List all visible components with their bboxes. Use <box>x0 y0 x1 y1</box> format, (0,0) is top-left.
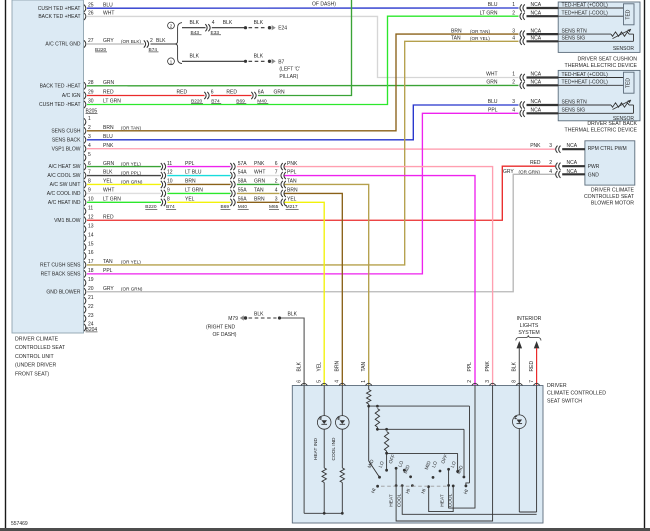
svg-text:(RIGHT END: (RIGHT END <box>206 324 235 330</box>
svg-text:HEAT IND: HEAT IND <box>313 437 319 459</box>
svg-text:3: 3 <box>88 134 91 140</box>
svg-text:A/C HEAT IND: A/C HEAT IND <box>48 200 81 206</box>
svg-text:RED: RED <box>530 160 541 166</box>
wire row pin7 M40 to M217 WHT <box>237 175 280 177</box>
ground branch 1 wire BLK <box>182 54 245 62</box>
svg-text:16: 16 <box>88 250 94 256</box>
ladder H2 <box>377 428 464 430</box>
svg-text:PPL: PPL <box>103 268 113 274</box>
svg-text:COOL: COOL <box>396 493 402 507</box>
svg-text:26: 26 <box>88 11 94 17</box>
connector ref B204 <box>86 327 98 333</box>
junction B74 row pin7 <box>161 170 202 179</box>
svg-text:7: 7 <box>529 380 535 383</box>
svg-text:BLOWER MOTOR: BLOWER MOTOR <box>591 201 634 207</box>
wire row pin9 M217 to seat switch BRN <box>284 193 342 385</box>
svg-text:(OR YEL): (OR YEL) <box>121 260 141 265</box>
svg-text:TED: TED <box>625 78 631 88</box>
driver climate controlled seat switch box S1 <box>292 386 543 524</box>
svg-text:RED: RED <box>103 214 114 220</box>
svg-text:(OR TAN): (OR TAN) <box>121 126 141 131</box>
svg-text:55A: 55A <box>238 188 248 194</box>
svg-text:TED-HEAT (+COOL): TED-HEAT (+COOL) <box>562 72 609 78</box>
svg-text:TAN: TAN <box>254 188 264 194</box>
svg-text:9: 9 <box>88 188 91 194</box>
ground B7 <box>268 59 300 80</box>
wire row pin10 B74 to M40 YEL <box>167 201 230 203</box>
svg-text:SENS CUSH: SENS CUSH <box>51 128 81 134</box>
wire row pin7 segment panel to B74 <box>87 175 161 177</box>
ladder resistor R5 <box>384 432 388 452</box>
driver climate controlled seat blower motor box M1 <box>585 141 635 185</box>
svg-text:(OR GRN): (OR GRN) <box>121 287 143 292</box>
svg-text:INTERIOR: INTERIOR <box>517 316 542 322</box>
ladder H3 <box>387 452 458 454</box>
svg-text:557469: 557469 <box>11 521 28 527</box>
svg-text:RET BACK SENS: RET BACK SENS <box>41 271 82 277</box>
svg-text:(OR YEL): (OR YEL) <box>121 161 141 166</box>
wire row pin10 M40 to M217 BRN <box>237 201 280 203</box>
S1 pin entries <box>296 361 540 386</box>
svg-text:BLK: BLK <box>254 54 264 60</box>
svg-text:6: 6 <box>296 380 302 383</box>
switch gang dashed link <box>381 485 448 487</box>
indicator common rail <box>304 512 342 514</box>
interior lights system caption <box>517 316 542 336</box>
driver seat back thermal electric device U2 box <box>558 70 640 122</box>
svg-text:PNK: PNK <box>254 161 265 167</box>
connector M217 row pin10 <box>275 197 297 206</box>
driver seat cushion thermal electric device U1 box <box>558 2 640 52</box>
heat indicator resistor R1 <box>322 468 326 483</box>
page border right <box>644 0 646 529</box>
svg-text:OF DASH): OF DASH) <box>213 332 237 338</box>
ground splice dot branch 1 <box>244 60 247 63</box>
svg-text:PILLAR): PILLAR) <box>279 74 298 80</box>
svg-text:27: 27 <box>88 38 94 44</box>
SW1 wiper <box>395 468 397 485</box>
svg-text:A/C COOL IND: A/C COOL IND <box>47 191 81 197</box>
U2 caption <box>565 121 638 134</box>
M1 pin 2 PWR <box>530 160 585 170</box>
connector M217 row pin9 <box>275 188 298 197</box>
driver seat cushion thermal electric device U1 connector pins <box>480 2 559 45</box>
svg-text:12: 12 <box>88 214 94 220</box>
svg-text:PNK: PNK <box>530 143 541 149</box>
svg-text:TAN: TAN <box>361 361 367 371</box>
U1 pin4 wire label TAN (OR YEL) <box>451 36 490 42</box>
svg-text:57A: 57A <box>238 161 248 167</box>
wire RED pin12 to M1 pin2 <box>87 166 555 220</box>
wire row pin9 B74 to M40 LT GRN <box>167 192 230 194</box>
svg-text:(LEFT 'C': (LEFT 'C' <box>279 67 300 73</box>
connector B205 pins 25-30 <box>38 2 142 108</box>
svg-text:YEL: YEL <box>287 197 297 203</box>
wire PNK pin4 to M1 pin3 <box>87 148 555 150</box>
svg-text:29: 29 <box>88 90 94 96</box>
svg-text:M79: M79 <box>228 316 238 322</box>
wire BLU pin3 to U2 pin3 <box>87 105 519 140</box>
svg-text:LT BLU: LT BLU <box>185 170 202 176</box>
heat indicator LED D1 <box>323 386 325 416</box>
circled 1 <box>168 58 175 65</box>
svg-text:21: 21 <box>88 295 94 301</box>
svg-text:3: 3 <box>512 28 515 34</box>
U1 caption <box>565 56 638 69</box>
svg-text:25: 25 <box>88 2 94 8</box>
ladder node C <box>385 452 388 455</box>
svg-text:14: 14 <box>88 232 94 238</box>
svg-text:TED: TED <box>625 9 631 19</box>
svg-text:YEL: YEL <box>185 197 195 203</box>
connector M217 row pin6 <box>275 161 298 170</box>
svg-text:LIGHTS: LIGHTS <box>520 323 539 329</box>
svg-text:WHT: WHT <box>254 170 265 176</box>
svg-text:(OR GRN): (OR GRN) <box>121 179 143 184</box>
svg-text:B7: B7 <box>278 59 284 65</box>
svg-text:RED: RED <box>177 90 188 96</box>
svg-text:BRN: BRN <box>254 197 265 203</box>
S1 caption <box>547 383 606 405</box>
svg-text:6: 6 <box>275 161 278 167</box>
svg-text:E24: E24 <box>278 26 287 32</box>
svg-text:8: 8 <box>167 197 170 203</box>
svg-text:HEAT: HEAT <box>440 494 446 507</box>
heat switch SW3 contacts <box>432 476 435 479</box>
svg-text:SENS RTN: SENS RTN <box>562 29 588 35</box>
svg-text:4: 4 <box>512 36 515 42</box>
svg-text:GND BLOWER: GND BLOWER <box>46 289 81 295</box>
rail cool1 to illumination <box>402 486 536 515</box>
illumination LED D3 <box>518 386 520 415</box>
S1 pin7 internal wire <box>536 386 538 513</box>
svg-text:7: 7 <box>275 170 278 176</box>
svg-text:PPL: PPL <box>185 161 195 167</box>
ground branch 2 wire BLK <box>182 20 245 36</box>
arrow up RED interior lights <box>534 341 540 348</box>
wire row pin7 B74 to M40 LT BLU <box>167 175 230 177</box>
svg-text:20: 20 <box>88 286 94 292</box>
junction M40 row pin6 <box>230 161 265 170</box>
wire LT GRN pin30 to U1 pin2 <box>87 16 519 104</box>
svg-text:BACK TED +HEAT: BACK TED +HEAT <box>38 14 80 20</box>
wire row pin6 M40 to M217 PNK <box>237 166 280 168</box>
ladder resistor R4 <box>375 409 379 428</box>
svg-text:DRIVER CLIMATE: DRIVER CLIMATE <box>591 188 635 194</box>
ground dashed BLK to B7 <box>249 54 267 62</box>
svg-text:VM1 BLOW: VM1 BLOW <box>54 218 81 224</box>
svg-text:RPM CTRL PWM: RPM CTRL PWM <box>588 146 627 152</box>
wire BLK pin27 to brace <box>151 43 176 45</box>
svg-text:BRN: BRN <box>185 179 196 185</box>
svg-text:GRN: GRN <box>103 80 115 86</box>
svg-text:18: 18 <box>88 268 94 274</box>
M1 pin 4 GND <box>503 169 585 178</box>
svg-text:2: 2 <box>88 125 91 131</box>
svg-text:2: 2 <box>467 380 473 383</box>
svg-text:1: 1 <box>88 116 91 122</box>
svg-text:PNK: PNK <box>103 143 114 149</box>
svg-text:19: 19 <box>88 277 94 283</box>
ground E24 <box>268 25 288 32</box>
svg-text:56A: 56A <box>238 197 248 203</box>
svg-text:4: 4 <box>335 380 341 383</box>
junction B220/B74 on pin29 wire <box>177 90 222 105</box>
svg-text:BRN: BRN <box>103 125 114 131</box>
svg-text:WHT: WHT <box>103 11 114 17</box>
svg-text:12: 12 <box>167 170 173 176</box>
junction B74 row pin6 <box>161 161 195 170</box>
svg-text:13: 13 <box>88 223 94 229</box>
wire PPL pin18 to U2 pin4 <box>87 113 519 274</box>
svg-text:GRN: GRN <box>103 161 115 167</box>
svg-text:22: 22 <box>88 304 94 310</box>
rail heat2 to pin2 <box>449 386 475 509</box>
svg-text:SEAT SWITCH: SEAT SWITCH <box>547 398 582 404</box>
svg-text:BACK TED -HEAT: BACK TED -HEAT <box>40 83 81 89</box>
svg-text:11: 11 <box>88 206 93 212</box>
wire row pin8 segment panel to B74 <box>87 183 161 185</box>
svg-text:VSP1 BLOW: VSP1 BLOW <box>52 146 81 152</box>
svg-text:4: 4 <box>512 108 515 114</box>
junction M40 row pin10 <box>230 197 265 206</box>
svg-text:BLK: BLK <box>156 38 166 44</box>
SW3 wiper <box>448 469 450 485</box>
svg-text:TED+HEAT (-COOL): TED+HEAT (-COOL) <box>562 11 609 17</box>
connector M217 row pin8 <box>275 179 297 188</box>
ground branch brace <box>175 23 182 64</box>
svg-text:DRIVER SEAT BACK: DRIVER SEAT BACK <box>587 121 637 127</box>
svg-text:CLIMATE CONTROLLED: CLIMATE CONTROLLED <box>547 391 606 397</box>
M1 caption <box>584 188 635 207</box>
svg-text:A/C HEAT SW: A/C HEAT SW <box>48 164 80 170</box>
junction B74 row pin8 <box>161 179 196 188</box>
svg-text:(UNDER DRIVER: (UNDER DRIVER <box>15 363 56 369</box>
svg-text:SENS SIG: SENS SIG <box>562 36 586 42</box>
illumination rail <box>519 511 536 513</box>
svg-text:SENS BACK: SENS BACK <box>52 137 81 143</box>
wire row pin8 B74 to M40 BRN <box>167 183 230 185</box>
svg-text:17: 17 <box>88 259 94 265</box>
svg-text:WHT: WHT <box>103 188 114 194</box>
svg-text:WHT: WHT <box>486 72 497 78</box>
blower resistor ladder R3 <box>368 386 370 390</box>
svg-text:COOL IND: COOL IND <box>331 437 337 461</box>
wire WHT pin26 to U2 pin1 <box>87 16 519 77</box>
svg-text:1: 1 <box>512 72 515 78</box>
svg-text:LT GRN: LT GRN <box>103 197 121 203</box>
svg-text:CUSH TED -HEAT: CUSH TED -HEAT <box>39 102 80 108</box>
svg-text:2: 2 <box>512 10 515 16</box>
svg-text:54A: 54A <box>238 170 248 176</box>
svg-text:7: 7 <box>88 170 91 176</box>
svg-text:8: 8 <box>512 380 518 383</box>
svg-text:LT GRN: LT GRN <box>185 188 203 194</box>
svg-text:3: 3 <box>485 380 491 383</box>
wire row pin6 M217 to seat switch PNK <box>284 167 492 386</box>
svg-text:1: 1 <box>512 2 515 8</box>
wire RED pin29 segment 1 <box>87 95 205 97</box>
svg-text:SYSTEM: SYSTEM <box>518 330 539 336</box>
interior lights brace <box>516 335 541 340</box>
svg-text:BLK: BLK <box>190 20 200 26</box>
svg-text:(OR BLK): (OR BLK) <box>121 39 141 44</box>
S1 pin6 internal wire <box>303 386 305 514</box>
ladder node A <box>367 405 370 408</box>
cool indicator resistor R2 <box>340 468 344 483</box>
ground splice dot branch 2 <box>244 26 247 29</box>
junction B69/M40 on pin29 wire <box>226 90 268 105</box>
page border bottom bar <box>0 528 650 531</box>
feed to heat MID contact <box>368 406 370 461</box>
SW4 wiper <box>452 485 455 488</box>
connector M217 row pin7 <box>275 170 297 179</box>
svg-text:PWR: PWR <box>588 164 600 170</box>
wire BRN pin2 to U1 pin3 <box>87 34 519 131</box>
svg-text:DRIVER SEAT CUSHION: DRIVER SEAT CUSHION <box>578 56 638 62</box>
driver seat back thermal electric device U2 connector pins <box>486 72 558 117</box>
svg-text:10: 10 <box>88 197 94 203</box>
junction M40 row pin7 <box>230 170 265 179</box>
svg-text:A/C IGN: A/C IGN <box>62 93 81 99</box>
svg-text:2: 2 <box>150 38 153 44</box>
heat switch SW1 contacts <box>378 476 381 479</box>
wire GRY pin27 segment <box>87 43 144 45</box>
wire GRY pin20 to M1 pin4 <box>87 174 555 291</box>
svg-text:PPL: PPL <box>467 362 473 372</box>
svg-text:4: 4 <box>88 143 91 149</box>
svg-text:5: 5 <box>316 380 322 383</box>
M1 pin 3 RPM CTRL PWM <box>530 143 585 153</box>
svg-text:BLU: BLU <box>103 2 113 8</box>
svg-text:TED+HEAT (-COOL): TED+HEAT (-COOL) <box>562 80 609 86</box>
svg-text:BLU: BLU <box>488 2 498 8</box>
svg-text:2: 2 <box>512 80 515 86</box>
svg-text:BLK: BLK <box>512 361 518 371</box>
wire BLU pin25 to U1 pin1 <box>87 7 519 9</box>
svg-text:THERMAL ELECTRIC DEVICE: THERMAL ELECTRIC DEVICE <box>565 63 638 69</box>
svg-text:CONTROLLED SEAT: CONTROLLED SEAT <box>15 345 66 351</box>
junction B220/B74 on pin27 wire <box>95 38 166 53</box>
wire row pin10 M217 to seat switch YEL <box>284 202 324 385</box>
svg-text:9: 9 <box>167 188 170 194</box>
junction M40 row pin8 <box>230 179 265 188</box>
svg-text:RED: RED <box>529 361 535 372</box>
svg-text:CONTROLLED SEAT: CONTROLLED SEAT <box>584 194 635 200</box>
wire row pin9 segment panel to B74 <box>87 192 161 194</box>
svg-text:2: 2 <box>549 160 552 166</box>
ladder node B <box>376 428 379 431</box>
U1 pin3 wire label BRN (OR TAN) <box>451 28 490 34</box>
M79 location caption <box>206 324 237 337</box>
wire row pin6 segment panel to B74 <box>87 166 161 168</box>
svg-text:PPL: PPL <box>488 108 498 114</box>
svg-text:A/C COOL SW: A/C COOL SW <box>47 173 80 179</box>
svg-text:PNK: PNK <box>485 361 491 372</box>
page border left <box>5 0 7 529</box>
svg-text:A/C CTRL GND: A/C CTRL GND <box>45 42 80 48</box>
wire row pin8 M217 to seat switch TAN <box>284 184 368 385</box>
connector ref B205 <box>86 109 98 115</box>
svg-text:DRIVER: DRIVER <box>547 383 567 389</box>
junction B74 row pin10 <box>161 197 195 206</box>
svg-text:SENS SIG: SENS SIG <box>562 108 586 114</box>
wire RED pin29 segment 2 <box>211 95 252 97</box>
svg-text:3: 3 <box>275 197 278 203</box>
svg-text:LT GRN: LT GRN <box>480 10 498 16</box>
M79 splice dot <box>278 316 281 319</box>
svg-text:GND: GND <box>588 172 600 178</box>
svg-text:6A: 6A <box>258 90 265 96</box>
svg-text:RED: RED <box>103 90 114 96</box>
control unit caption <box>15 337 66 378</box>
svg-text:BRN: BRN <box>451 28 462 34</box>
svg-text:6: 6 <box>88 161 91 167</box>
circled 2 <box>168 22 175 29</box>
svg-text:BLK: BLK <box>296 361 302 371</box>
connector B204 pins 1-24 <box>40 116 143 331</box>
junction column refs B220 B74 B69 M40 M65 M217 <box>145 204 298 210</box>
svg-text:8: 8 <box>88 179 91 185</box>
wire GRN pin28 to U2 pin2 <box>87 84 519 86</box>
svg-text:6: 6 <box>211 90 214 96</box>
svg-text:3: 3 <box>512 99 515 105</box>
svg-text:THERMAL ELECTRIC DEVICE: THERMAL ELECTRIC DEVICE <box>565 127 638 133</box>
svg-text:4: 4 <box>275 188 278 194</box>
svg-text:10: 10 <box>167 179 173 185</box>
rail cool2 to ladder <box>429 486 454 512</box>
svg-text:BLU: BLU <box>488 99 498 105</box>
junction M40 row pin9 <box>230 188 264 197</box>
svg-text:(OR TAN): (OR TAN) <box>470 29 490 34</box>
cool indicator LED D2 <box>341 386 343 416</box>
svg-text:BLK: BLK <box>288 311 298 317</box>
cool switch SW4 contacts <box>456 470 459 473</box>
svg-text:CONTROL UNIT: CONTROL UNIT <box>15 354 55 360</box>
wire row pin8 M40 to M217 GRN <box>237 183 280 185</box>
svg-text:BLK: BLK <box>223 20 233 26</box>
svg-text:LT GRN: LT GRN <box>103 99 121 105</box>
ground M79 <box>228 315 247 322</box>
svg-text:BRN: BRN <box>335 361 341 372</box>
svg-text:TAN: TAN <box>287 179 297 185</box>
svg-text:PNK: PNK <box>287 161 298 167</box>
arrow up BLK interior lights <box>517 341 523 348</box>
svg-text:PPL: PPL <box>287 170 297 176</box>
svg-text:BLK: BLK <box>254 311 264 317</box>
svg-text:YEL: YEL <box>103 179 113 185</box>
svg-text:RET CUSH SENS: RET CUSH SENS <box>40 263 81 269</box>
svg-text:A/C SW UNIT: A/C SW UNIT <box>50 182 81 188</box>
svg-text:58A: 58A <box>238 179 248 185</box>
svg-text:1: 1 <box>361 380 367 383</box>
svg-text:(OR PPL): (OR PPL) <box>121 170 141 175</box>
svg-text:GRN: GRN <box>254 179 266 185</box>
svg-text:11: 11 <box>167 161 172 167</box>
cool switch SW2 contacts <box>403 469 406 472</box>
wire GRN pin29 to top of page <box>258 0 352 96</box>
wire row pin9 M40 to M217 TAN <box>237 192 280 194</box>
svg-text:BLK: BLK <box>190 54 200 60</box>
svg-text:YEL: YEL <box>316 362 322 372</box>
svg-text:TAN: TAN <box>103 259 113 265</box>
wire row pin7 M217 to seat switch PPL <box>284 176 475 386</box>
svg-text:5: 5 <box>88 152 91 158</box>
wire row pin10 segment panel to B74 <box>87 201 161 203</box>
svg-text:GRY: GRY <box>103 286 114 292</box>
svg-text:TED-HEAT (+COOL): TED-HEAT (+COOL) <box>562 2 609 8</box>
SW2 wiper <box>401 484 404 487</box>
